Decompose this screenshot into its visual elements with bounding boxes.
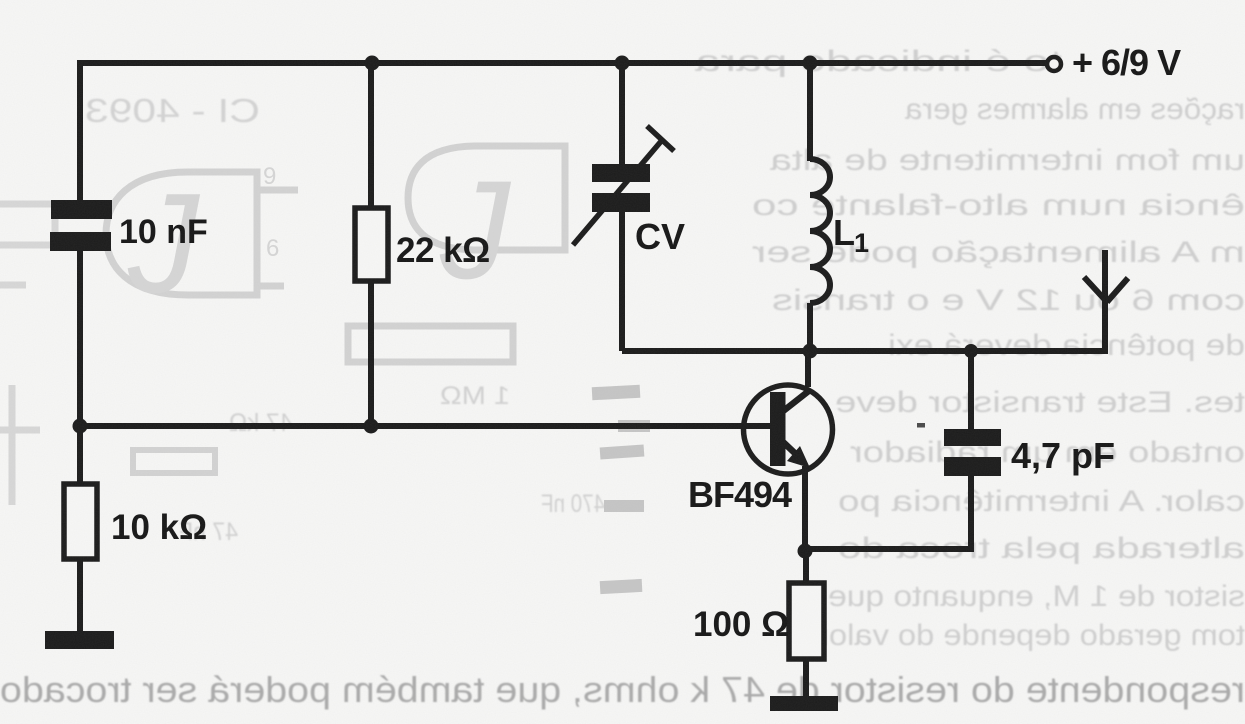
junction dot 22k/top rail <box>365 56 380 71</box>
junction dot L1/top rail <box>803 56 818 71</box>
ghost resistor box 1M <box>348 326 513 362</box>
wire 10k top <box>77 426 83 485</box>
junction dot 22k/base row <box>364 419 379 434</box>
wire 22k bottom <box>368 280 374 426</box>
wire L1 top <box>807 63 813 161</box>
capacitor CV plates <box>592 164 650 182</box>
resistor R2 10k body <box>64 484 97 559</box>
resistor R1 22k body <box>355 208 388 281</box>
junction dot CV/top rail <box>615 56 630 71</box>
junction dot emitter <box>798 544 813 559</box>
wire collector <box>805 351 811 387</box>
resistor R3 100 ohm body <box>789 583 824 659</box>
wire antenna vertical <box>1102 250 1108 354</box>
ghost gate outline 2 <box>408 146 565 250</box>
trimmer arrow through CV <box>573 139 663 245</box>
wire left vertical upper <box>77 60 83 201</box>
wire 100R bottom <box>803 658 809 699</box>
wire 100R top <box>803 549 809 584</box>
wire 22k top <box>368 63 374 209</box>
ghost resistor box small <box>133 450 215 473</box>
terminal +6/9V open circle <box>1047 57 1061 71</box>
junction dot L1/collector <box>803 344 818 359</box>
wire base row <box>77 423 776 429</box>
wire CV bottom <box>619 211 625 351</box>
junction dot 4.7pF top <box>964 344 978 358</box>
capacitor C1 10nF plates <box>51 200 112 219</box>
ghost smudge column <box>592 385 641 400</box>
ground bottom <box>770 696 838 711</box>
ghost edge lines left <box>0 204 55 505</box>
antenna arrow <box>1084 277 1128 302</box>
wire left vertical middle <box>77 250 83 429</box>
ground left <box>45 631 114 649</box>
wire emitter vertical <box>802 466 808 552</box>
ghost ink speck <box>917 423 925 428</box>
junction dot base row left <box>73 419 88 434</box>
wire L1 bottom <box>807 303 813 351</box>
paper noise overlay <box>0 0 1 1</box>
capacitor C2 4.7pF plates <box>944 429 1001 446</box>
wire CV top <box>619 63 625 166</box>
wire 10k bottom <box>77 558 83 634</box>
wire 4.7pF riser <box>968 351 974 430</box>
ghost gate outline 1 <box>106 172 257 295</box>
inductor L1 coil <box>810 159 830 303</box>
transistor Q1 BF494 <box>744 385 833 474</box>
wire LC bottom rail <box>622 348 1105 354</box>
wire emitter row <box>805 475 971 549</box>
wire top rail <box>80 60 1046 66</box>
